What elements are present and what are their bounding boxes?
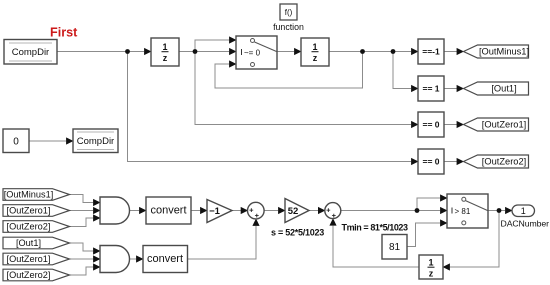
svg-text:==-1: ==-1 xyxy=(422,47,440,57)
svg-text:[OutZero1]: [OutZero1] xyxy=(482,120,526,130)
svg-text:~= 0: ~= 0 xyxy=(244,48,261,57)
svg-text:Tmin = 81*5/1023: Tmin = 81*5/1023 xyxy=(342,223,408,233)
svg-text:+: + xyxy=(332,211,337,220)
svg-text:== 0: == 0 xyxy=(422,157,439,167)
svg-text:z: z xyxy=(163,53,168,63)
svg-text:[OutZero2]: [OutZero2] xyxy=(7,222,51,232)
svg-text:convert: convert xyxy=(147,253,183,265)
svg-text:1: 1 xyxy=(428,258,433,268)
svg-text:z: z xyxy=(429,269,434,279)
svg-text:CompDir: CompDir xyxy=(77,136,114,147)
svg-text:[OutZero1]: [OutZero1] xyxy=(7,254,51,264)
svg-text:+: + xyxy=(255,211,260,220)
svg-text:s = 52*5/1023: s = 52*5/1023 xyxy=(271,228,324,238)
svg-text:== 1: == 1 xyxy=(422,84,439,94)
svg-text:[OutZero2]: [OutZero2] xyxy=(7,270,51,280)
svg-text:[OutMinus1]: [OutMinus1] xyxy=(4,190,54,200)
svg-text:f(): f() xyxy=(285,8,293,17)
svg-text:DACNumber: DACNumber xyxy=(501,218,550,228)
svg-text:+: + xyxy=(249,206,254,215)
svg-text:1: 1 xyxy=(162,42,167,52)
svg-text:+: + xyxy=(326,206,331,215)
svg-text:[OutZero2]: [OutZero2] xyxy=(482,157,526,167)
svg-text:== 0: == 0 xyxy=(422,120,439,130)
svg-text:[OutMinus1]: [OutMinus1] xyxy=(479,47,529,57)
svg-text:−1: −1 xyxy=(209,206,221,217)
svg-text:First: First xyxy=(50,26,78,40)
svg-text:1: 1 xyxy=(521,206,526,216)
svg-text:convert: convert xyxy=(150,205,186,217)
svg-text:function: function xyxy=(273,22,304,32)
svg-text:CompDir: CompDir xyxy=(12,47,49,58)
svg-text:1: 1 xyxy=(312,42,317,52)
svg-text:[Out1]: [Out1] xyxy=(491,84,516,94)
svg-text:0: 0 xyxy=(13,137,19,148)
svg-text:z: z xyxy=(313,53,318,63)
svg-text:81: 81 xyxy=(389,242,401,253)
svg-text:52: 52 xyxy=(288,206,299,217)
svg-text:[Out1]: [Out1] xyxy=(16,238,41,248)
svg-text:> 81: > 81 xyxy=(455,207,471,216)
svg-text:[OutZero1]: [OutZero1] xyxy=(7,206,51,216)
